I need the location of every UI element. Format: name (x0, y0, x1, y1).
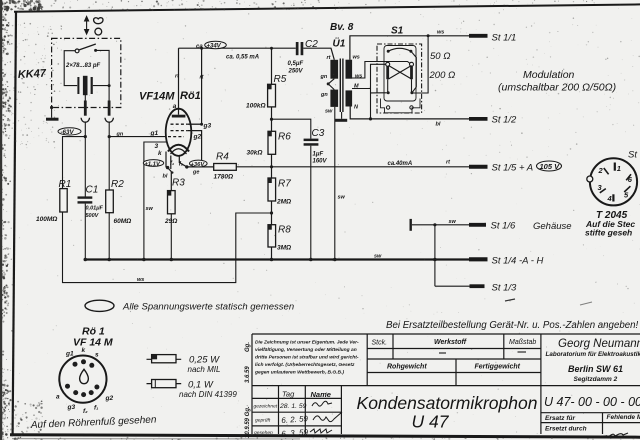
transformer primary winding (330, 60, 338, 107)
svg-text:dritte Personen ist strafbar u: dritte Personen ist strafbar und wird ge… (255, 355, 359, 361)
svg-text:ge: ge (192, 170, 199, 176)
handwritten corner note (604, 433, 628, 438)
svg-text:R7: R7 (278, 179, 291, 190)
svg-text:St 1/3: St 1/3 (492, 283, 518, 294)
svg-text:Rö1: Rö1 (180, 90, 201, 102)
svg-text:stifte geseh: stifte geseh (585, 227, 632, 237)
connector T2045 pin 3 (598, 183, 606, 193)
svg-text:0,25 W: 0,25 W (189, 355, 220, 366)
ground (transformer core) (335, 112, 347, 122)
terminal stub St1/5 (469, 163, 533, 174)
svg-text:Ersetzt durch: Ersetzt durch (545, 426, 587, 433)
svg-text:3MΩ: 3MΩ (277, 245, 291, 252)
svg-text:St 1/2: St 1/2 (492, 115, 518, 126)
switch S1 mounting holes (386, 106, 413, 109)
title block dashes (439, 352, 526, 353)
svg-text:ca.40mA: ca.40mA (388, 161, 413, 167)
svg-text:28. 1. 59: 28. 1. 59 (279, 403, 307, 410)
capacitor C1 (78, 185, 104, 220)
svg-text:+36V: +36V (191, 162, 206, 168)
svg-text:1μF: 1μF (313, 152, 324, 158)
terminal stub St1/2 (469, 115, 517, 126)
svg-text:St 1/1: St 1/1 (492, 33, 517, 44)
wire Gehaeuse to St1/6 (412, 223, 470, 226)
date table rows (254, 404, 278, 437)
svg-text:0,01μF: 0,01μF (86, 206, 104, 212)
wire capsule switch branch (64, 50, 109, 85)
capsule capacitor pair 2x78...83 pF (77, 76, 92, 95)
resistor R7 (268, 178, 291, 206)
svg-text:+34V: +34V (207, 43, 222, 49)
svg-text:gn: gn (320, 74, 328, 80)
dates handwritten (279, 403, 309, 439)
tube grid g3 (171, 123, 212, 130)
svg-text:R5: R5 (274, 74, 287, 85)
wire top right contact loop (411, 51, 416, 93)
connector pin capsule left (81, 94, 89, 122)
wire +36V node line (187, 166, 214, 168)
svg-text:lich verfolgt. (Urheberrechts: lich verfolgt. (Urheberrechtsgesetz, Ges… (255, 362, 355, 368)
capsule KK47 enclosure dash-dot box (52, 38, 121, 107)
company block Georg Neumann (546, 338, 640, 383)
switch S1 top strap arc (388, 48, 411, 51)
resistor R2 (106, 179, 132, 225)
svg-text:f₂: f₂ (179, 162, 184, 168)
resistor R1 (36, 179, 71, 223)
wire St1/3 line (435, 285, 470, 287)
svg-text:a: a (56, 394, 60, 401)
switch S1 body outline (381, 46, 421, 113)
svg-text:Berlin SW 61: Berlin SW 61 (568, 364, 623, 374)
svg-text:s: s (95, 352, 99, 359)
wire R5 to R6 (270, 107, 273, 131)
wire R4 to St1/5 (236, 166, 469, 168)
svg-text:500V: 500V (86, 213, 100, 219)
svg-text:sw: sw (449, 219, 457, 225)
svg-text:U 47- 00 - 00 - 00: U 47- 00 - 00 - 00 (544, 395, 640, 409)
svg-text:gesehen: gesehen (254, 430, 273, 436)
svg-text:Gg.: Gg. (245, 342, 251, 352)
svg-text:g3: g3 (203, 123, 212, 130)
connector T2045 pin 5 (624, 186, 630, 199)
svg-text:VF 14 M: VF 14 M (73, 337, 113, 349)
switch S1 lower contacts (387, 79, 414, 94)
svg-text:VF14M: VF14M (139, 91, 175, 103)
svg-text:ca. 0,55 mA: ca. 0,55 mA (226, 55, 259, 61)
terminal stub St1/3 (470, 283, 518, 294)
svg-text:1: 1 (617, 164, 621, 173)
svg-text:6. 2. 59: 6. 2. 59 (281, 414, 309, 425)
svg-text:29Ω: 29Ω (164, 218, 177, 225)
svg-text:0,5μF: 0,5μF (288, 61, 304, 67)
bus junction dots (84, 258, 437, 262)
wire R3 to bus (170, 214, 172, 260)
svg-text:30kΩ: 30kΩ (247, 150, 263, 157)
wire St1/1 rail to lower right contact (413, 36, 428, 93)
svg-text:2: 2 (598, 166, 604, 175)
svg-text:Ü1: Ü1 (333, 37, 346, 50)
tube socket pins (65, 359, 99, 397)
switch S1 enclosure dash-dot box (377, 44, 422, 113)
wire rail to R5 (271, 48, 273, 84)
svg-text:R2: R2 (111, 179, 124, 190)
svg-text:g3: g3 (67, 404, 76, 411)
pattern selector arrow (85, 17, 89, 35)
wire filament f2 to +36V node (179, 157, 189, 169)
capacitor C2 (288, 39, 319, 75)
label Modulation (498, 69, 616, 94)
wire R5/R6 node to C3 (272, 119, 311, 138)
wire M tap to lower left contact (352, 89, 387, 93)
svg-text:a: a (173, 103, 177, 110)
svg-text:50 Ω: 50 Ω (430, 51, 450, 62)
wire R7 to R8 (270, 201, 273, 225)
wire C2 to transformer primary (303, 48, 334, 60)
svg-text:gn: gn (320, 92, 328, 98)
svg-text:ws: ws (437, 30, 444, 36)
caption Auf die Steckerstifte gesehen (585, 219, 635, 237)
svg-text:sw: sw (374, 254, 382, 260)
resistor R6 (247, 131, 292, 156)
value label 2x78...83 pF (65, 63, 101, 69)
svg-text:200 Ω: 200 Ω (429, 70, 456, 81)
legend resistor 0,25W (147, 355, 221, 375)
rotated margin revision notes (245, 342, 251, 438)
resistor R3 (164, 178, 185, 226)
svg-text:60MΩ: 60MΩ (114, 218, 132, 225)
switch S1 crossover wires (389, 66, 412, 80)
switch S1 pole circles and sliders (386, 62, 414, 79)
svg-text:Fehlende M: Fehlende M (607, 414, 640, 421)
svg-text:Stck.: Stck. (372, 340, 388, 347)
wire R8 to bus (271, 247, 273, 260)
replacement rows (545, 414, 640, 433)
ground (capsule) (46, 106, 59, 121)
wire R6 to +36V node (270, 154, 273, 178)
junction node capsule output (108, 84, 111, 87)
note ellipse Alle Spannungswerte (85, 300, 294, 312)
svg-text:Tag: Tag (282, 390, 295, 399)
svg-text:2×78...83 pF: 2×78...83 pF (65, 63, 101, 69)
svg-text:k: k (82, 347, 86, 354)
svg-text:R6: R6 (278, 132, 291, 143)
tube grid g2 (171, 131, 202, 141)
svg-text:Die Zeichnung ist unser Eigent: Die Zeichnung ist unser Eigentum. Jede V… (255, 340, 359, 346)
svg-text:3: 3 (155, 143, 159, 150)
wire filament f1 (170, 156, 174, 170)
svg-text:Alle Spannungswerte statisch g: Alle Spannungswerte statisch gemessen (122, 302, 294, 313)
svg-text:(umschaltbar 200 Ω/50Ω): (umschaltbar 200 Ω/50Ω) (498, 82, 616, 94)
transformer U1 labels (330, 22, 354, 50)
connector pin capsule right (105, 86, 113, 123)
date table headers (282, 390, 331, 400)
wire g1 line capsule to tube (109, 136, 166, 138)
wire C1 to bus (84, 204, 86, 260)
connector T2045 pin 6 (626, 174, 633, 184)
svg-text:U 47: U 47 (412, 412, 450, 432)
connector T2045 pin 1 (615, 163, 621, 173)
tube socket diagram Rö1 VF14M (59, 326, 113, 403)
transformer primary half-join (327, 79, 335, 90)
transformer secondary winding (346, 60, 353, 107)
tube socket key spigot (80, 369, 89, 383)
svg-text:g1: g1 (65, 351, 74, 358)
svg-text:g1: g1 (150, 130, 159, 137)
svg-text:sw: sw (325, 109, 333, 115)
svg-text:0,1 W: 0,1 W (188, 380, 214, 391)
svg-text:bl: bl (436, 122, 441, 128)
svg-text:Rohgewicht: Rohgewicht (387, 364, 427, 371)
svg-text:+1,1V: +1,1V (145, 161, 161, 167)
svg-text:160V: 160V (313, 159, 328, 165)
connector T2045 circle (587, 158, 637, 205)
svg-text:100kΩ: 100kΩ (246, 103, 266, 110)
wire cathode down (166, 152, 174, 191)
svg-text:C3: C3 (312, 128, 325, 139)
svg-text:f₁: f₁ (170, 161, 174, 167)
terminal stub St1/6 (469, 221, 572, 233)
svg-text:Bei Ersatzteilbestellung Gerä: Bei Ersatzteilbestellung Gerät-Nr. u. Po… (386, 320, 638, 331)
svg-text:Werkstoff: Werkstoff (434, 339, 467, 346)
signatures scribbles (310, 401, 342, 433)
tube socket pin labels (56, 347, 113, 415)
main title Kondensatormikrophon U47 (357, 393, 538, 432)
labels ws secondary (353, 55, 363, 111)
svg-text:vielfältigung, Verwertung oder: vielfältigung, Verwertung oder Mitteilun… (255, 347, 357, 353)
svg-text:Modulation: Modulation (523, 69, 575, 81)
svg-text:k: k (158, 150, 162, 157)
title block small headers (372, 339, 537, 371)
node +36V oval label (190, 160, 208, 168)
svg-text:bl: bl (163, 174, 168, 180)
wire -63V branch to R1 (63, 137, 86, 189)
svg-text:geprüft: geprüft (255, 418, 271, 424)
svg-text:100MΩ: 100MΩ (36, 216, 57, 223)
svg-text:105 V: 105 V (540, 162, 561, 171)
supply rail +34V (179, 47, 296, 50)
wire left pole to St1/2 (369, 64, 386, 120)
connector T2045 pin 2 (598, 166, 609, 175)
svg-text:gezeichnet: gezeichnet (254, 404, 278, 410)
svg-text:nach DIN 41399: nach DIN 41399 (179, 390, 237, 399)
switch S1 top contacts (387, 50, 413, 53)
wire capsule right to R2 (108, 122, 111, 190)
wire ws2 tap to right pole (352, 62, 410, 79)
wire C3 to bus (310, 146, 312, 260)
svg-text:Gehäuse: Gehäuse (533, 221, 572, 232)
svg-text:4: 4 (607, 194, 613, 203)
svg-text:ws: ws (137, 277, 144, 283)
svg-text:f₁: f₁ (94, 405, 98, 412)
svg-text:g2: g2 (193, 134, 202, 141)
svg-text:f₂: f₂ (83, 408, 88, 415)
svg-text:R3: R3 (172, 178, 185, 189)
svg-text:Georg Neumann: Georg Neumann (558, 338, 640, 350)
wire shield to ground bus (144, 142, 167, 260)
capacitor C3 (304, 128, 328, 165)
tube grid g1 dashes (168, 136, 184, 138)
wire g3 to supply rail (200, 47, 203, 125)
svg-text:-63V: -63V (61, 129, 75, 136)
svg-text:6. 3. 59: 6. 3. 59 (281, 428, 309, 439)
cardioid pattern symbol (94, 18, 103, 24)
svg-text:S1: S1 (391, 26, 404, 37)
svg-text:R1: R1 (59, 179, 72, 190)
node +1,1V oval label (143, 160, 163, 168)
node 105V oval label (537, 161, 562, 171)
tube cathode (168, 145, 189, 152)
svg-text:sw: sw (338, 195, 346, 201)
wire primary bottom to bus (334, 107, 336, 260)
omni pattern symbol (95, 28, 102, 35)
tube Rö1 VF14M envelope (139, 90, 201, 156)
svg-text:sw: sw (146, 206, 154, 212)
svg-text:ws: ws (353, 55, 360, 61)
ground bus (sw) (85, 258, 470, 260)
node +34V oval label (196, 41, 226, 50)
connector T2045 pin 4 (607, 194, 614, 203)
svg-text:g2: g2 (105, 395, 114, 402)
resistor R5 (246, 74, 287, 110)
svg-text:nach MIL: nach MIL (188, 365, 221, 374)
pattern switch lever in capsule (75, 44, 97, 53)
node -63V oval label (58, 128, 81, 136)
transformer core (340, 59, 343, 113)
svg-text:1780Ω: 1780Ω (214, 174, 234, 181)
svg-text:gegen unlauteren Wettbewerb, B: gegen unlauteren Wettbewerb, B.G.B.) (254, 370, 344, 376)
svg-text:Laboratorium für Elektroakusti: Laboratorium für Elektroakustik (546, 351, 640, 358)
wire anode to supply rail (178, 48, 180, 115)
svg-text:ws: ws (355, 74, 362, 80)
tube filament (171, 149, 187, 154)
svg-text:10.9.59 Gg.: 10.9.59 Gg. (245, 406, 251, 438)
wire secondary top to St1/1 rail (350, 34, 470, 59)
resistor R4 (214, 152, 237, 181)
svg-text:St 1/5 + A: St 1/5 + A (492, 163, 534, 174)
svg-text:ca: ca (196, 44, 203, 50)
svg-text:C1: C1 (86, 185, 99, 196)
wire St1/6 to bus to St1/3 (434, 225, 436, 286)
svg-text:R4: R4 (216, 152, 229, 163)
svg-text:R8: R8 (278, 225, 291, 236)
legend resistor 0,1W (147, 380, 238, 400)
wire feedback divider to R1 (ws) (63, 212, 272, 283)
svg-text:St 1/6: St 1/6 (491, 221, 517, 232)
tube anode plate (172, 103, 186, 118)
svg-text:Ersatz für: Ersatz für (545, 415, 575, 422)
wire capsule left to C1 (84, 122, 87, 196)
wire g2 to +36V node (187, 131, 201, 162)
title block grid (252, 334, 640, 434)
wire R2 to bus (108, 213, 110, 260)
svg-text:St 1/4 -A - H: St 1/4 -A - H (492, 256, 544, 267)
resistor R8 (268, 225, 291, 252)
terminal stub St1/1 (469, 33, 516, 44)
svg-text:Kondensatormikrophon: Kondensatormikrophon (357, 393, 538, 413)
svg-text:2MΩ: 2MΩ (276, 199, 291, 206)
chassis terminal bar Gehaeuse (410, 219, 412, 231)
svg-text:St: St (628, 150, 637, 161)
legal notice text (254, 340, 359, 376)
wire N tap to St1/2 line (350, 107, 469, 119)
svg-text:Name: Name (311, 390, 331, 399)
svg-text:250V: 250V (288, 69, 304, 75)
terminal stub St1/4 (469, 256, 544, 267)
svg-text:Segitzdamm 2: Segitzdamm 2 (574, 376, 618, 383)
labels gn primary (320, 74, 329, 98)
svg-text:3.6.59: 3.6.59 (245, 366, 251, 383)
svg-text:Maßstab: Maßstab (509, 339, 536, 346)
svg-text:Bv. 8: Bv. 8 (330, 22, 354, 33)
svg-text:gn: gn (116, 132, 124, 138)
svg-text:Fertiggewicht: Fertiggewicht (475, 364, 521, 371)
